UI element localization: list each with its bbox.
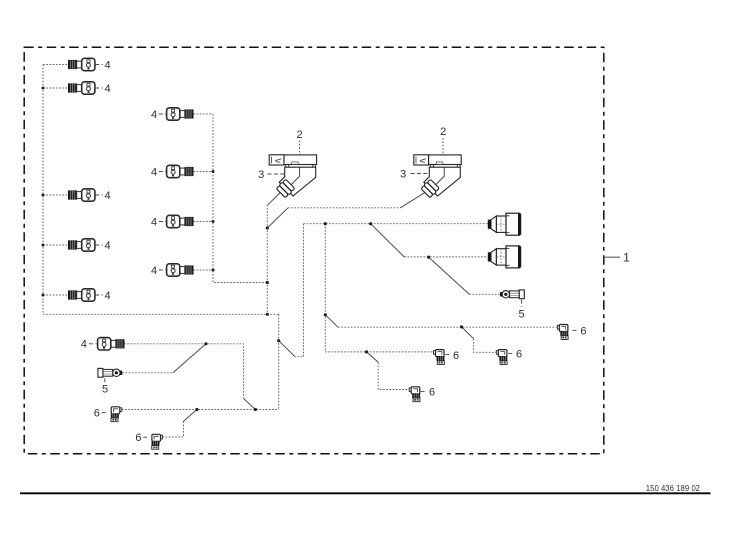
node left bus 4 bbox=[42, 244, 45, 247]
connector B (multipin lower) bbox=[488, 246, 521, 268]
leader 3 right bbox=[411, 173, 428, 175]
connector 6c bbox=[434, 350, 445, 365]
wire: sensor 5 left diagonal bbox=[173, 344, 206, 373]
connector 4 (left col 5) bbox=[68, 289, 95, 301]
node branch 5r bbox=[427, 256, 430, 259]
svg-text:6: 6 bbox=[135, 432, 141, 444]
leader 4 L4 bbox=[95, 244, 103, 246]
wire: branch down to B bbox=[371, 224, 405, 257]
leader 4 M4 bbox=[159, 269, 166, 271]
leader 4 bottom bbox=[89, 343, 97, 345]
connector 4 (mid col 2) bbox=[167, 165, 194, 177]
wire: bottom left run bbox=[122, 409, 279, 411]
wire: jog into bottom run bbox=[244, 399, 256, 410]
wire: left col stub 2 bbox=[43, 87, 68, 89]
wire: left col stub 1 bbox=[43, 64, 68, 66]
wire: right main drop bbox=[278, 314, 280, 409]
wire: left col stub 4 bbox=[43, 244, 68, 246]
leader 6d bbox=[421, 390, 427, 392]
connector 4 (left col 1) bbox=[68, 58, 95, 70]
wire: branch down to 5 right bbox=[429, 257, 470, 294]
leader 4 L5 bbox=[95, 294, 103, 296]
node branch 6d bbox=[365, 350, 368, 353]
wire: drop to 6b bbox=[474, 339, 497, 353]
leader 4 L3 bbox=[95, 194, 103, 196]
leader 4 M1 bbox=[159, 113, 166, 115]
node branch 6b bbox=[460, 325, 463, 328]
valve assembly 2/3 (left) bbox=[269, 155, 316, 198]
node left bus 3 bbox=[42, 194, 45, 197]
leader 6 bl-lower bbox=[143, 436, 149, 438]
connector 4 (left col 4) bbox=[68, 239, 95, 251]
wire: riser to valves bbox=[266, 205, 268, 314]
sensor 5 (right) bbox=[500, 290, 524, 299]
svg-text:150 436 189 02: 150 436 189 02 bbox=[646, 484, 700, 493]
wire: feed to connector A bbox=[304, 223, 488, 225]
node drop jog bbox=[277, 339, 280, 342]
wire: valve3 right tail bbox=[400, 193, 424, 208]
node mid bus 3 bbox=[212, 220, 215, 223]
node bottom run b bbox=[195, 408, 198, 411]
connector 4 (left col 2) bbox=[68, 82, 95, 94]
svg-text:4: 4 bbox=[151, 265, 157, 277]
wire: bottom main run bbox=[43, 313, 279, 315]
connector 6d bbox=[409, 387, 420, 402]
svg-text:6: 6 bbox=[429, 387, 435, 399]
node riser mid bbox=[266, 281, 269, 284]
sensor 5 (left) bbox=[98, 368, 122, 377]
wire: mid col stub 3 bbox=[193, 221, 213, 223]
svg-text:2: 2 bbox=[297, 129, 303, 141]
node mid bus 4 bbox=[212, 269, 215, 272]
wire: left col stub 3 bbox=[43, 194, 68, 196]
connector 6b bbox=[496, 350, 507, 365]
node bottom run a bbox=[254, 408, 257, 411]
node riser bottom bbox=[266, 313, 269, 316]
wire: mid col stub 1 bbox=[193, 113, 213, 115]
connector 4 (mid col 3) bbox=[167, 215, 194, 227]
svg-text:5: 5 bbox=[102, 383, 108, 395]
leader line item 1 bbox=[605, 256, 620, 258]
leader 5 left bbox=[104, 378, 106, 384]
wire: branch down to 6d bbox=[367, 352, 379, 362]
wire: feed to sensor 5 right bbox=[469, 293, 500, 295]
connector A (multipin upper) bbox=[488, 213, 521, 235]
wire: mid col stub 2 bbox=[193, 171, 213, 173]
connector 4 (left col 3) bbox=[68, 189, 95, 201]
wire: middle bus vertical bbox=[213, 114, 267, 283]
wire: top cross run bbox=[288, 207, 400, 209]
leader 2 right bbox=[442, 138, 444, 155]
wire: branch to 6a run bbox=[325, 315, 338, 327]
node riser top bbox=[266, 226, 269, 229]
svg-text:4: 4 bbox=[105, 83, 111, 95]
wire: branch to lower 6 bbox=[163, 421, 184, 437]
leader 4 L2 bbox=[95, 87, 103, 89]
leader 4 M2 bbox=[159, 171, 166, 173]
wire: left col stub 5 bbox=[43, 294, 68, 296]
svg-text:6: 6 bbox=[453, 350, 459, 362]
svg-text:1: 1 bbox=[623, 251, 630, 265]
svg-text:3: 3 bbox=[258, 169, 264, 181]
connector 4 (mid col 1) bbox=[167, 108, 194, 120]
svg-text:6: 6 bbox=[580, 325, 586, 337]
node 4 bottom bbox=[204, 342, 207, 345]
svg-text:4: 4 bbox=[151, 109, 157, 121]
frame: dashed harness boundary (item 1 outline) bbox=[24, 47, 604, 453]
leader 6a bbox=[572, 329, 578, 331]
wire: bottom 4 run bbox=[124, 344, 243, 399]
svg-text:4: 4 bbox=[105, 190, 111, 202]
svg-text:4: 4 bbox=[105, 290, 111, 302]
svg-text:5: 5 bbox=[518, 308, 524, 320]
node x325 top bbox=[324, 222, 327, 225]
svg-text:4: 4 bbox=[81, 339, 87, 351]
leader 3 left bbox=[268, 173, 285, 175]
valve assembly 2/3 (right) bbox=[414, 155, 461, 198]
wire: crossover jog bbox=[279, 341, 295, 357]
svg-text:4: 4 bbox=[105, 59, 111, 71]
svg-text:4: 4 bbox=[105, 240, 111, 252]
svg-text:2: 2 bbox=[440, 126, 446, 138]
wire: valve3 left tail bbox=[268, 193, 280, 205]
connector 6 (bottom left lower) bbox=[152, 434, 163, 449]
connector 6 (bottom left upper) bbox=[111, 407, 122, 422]
svg-text:4: 4 bbox=[151, 216, 157, 228]
wire: junction to top run bbox=[267, 208, 288, 228]
leader 6c bbox=[445, 353, 451, 355]
connector 4 (bottom) bbox=[98, 338, 125, 350]
wire: feed to connector B bbox=[404, 256, 487, 258]
wire: sensor 5 left stub bbox=[122, 372, 173, 374]
wire: jog to lower 6 bbox=[184, 410, 197, 422]
title block rule bbox=[20, 492, 711, 494]
wire: branch down to 6b bbox=[462, 327, 474, 339]
node branch B bbox=[369, 222, 372, 225]
leader 4 M3 bbox=[159, 221, 166, 223]
svg-text:4: 4 bbox=[151, 166, 157, 178]
leader 6b bbox=[508, 352, 514, 354]
connector 6a bbox=[557, 325, 568, 340]
wire: mid col stub 4 bbox=[193, 269, 213, 271]
wire: riser x325 bbox=[325, 224, 433, 352]
leader 5 right bbox=[521, 300, 523, 307]
wire: drop to 6d bbox=[378, 362, 409, 389]
leader 4 L1 bbox=[95, 64, 103, 66]
svg-text:3: 3 bbox=[400, 168, 406, 180]
wire: left bus vertical bbox=[42, 65, 44, 315]
node left bus 2 bbox=[42, 87, 45, 90]
svg-text:6: 6 bbox=[94, 408, 100, 420]
node mid bus 2 bbox=[212, 170, 215, 173]
node x325 mid bbox=[324, 313, 327, 316]
leader 2 left bbox=[299, 141, 301, 155]
wire: run to 6a bbox=[338, 326, 557, 328]
node left bus 5 bbox=[42, 294, 45, 297]
leader 6 bl-upper bbox=[102, 412, 108, 414]
wire: drop from A-feed bbox=[295, 224, 304, 357]
svg-text:6: 6 bbox=[516, 349, 522, 361]
connector 4 (mid col 4) bbox=[167, 264, 194, 276]
